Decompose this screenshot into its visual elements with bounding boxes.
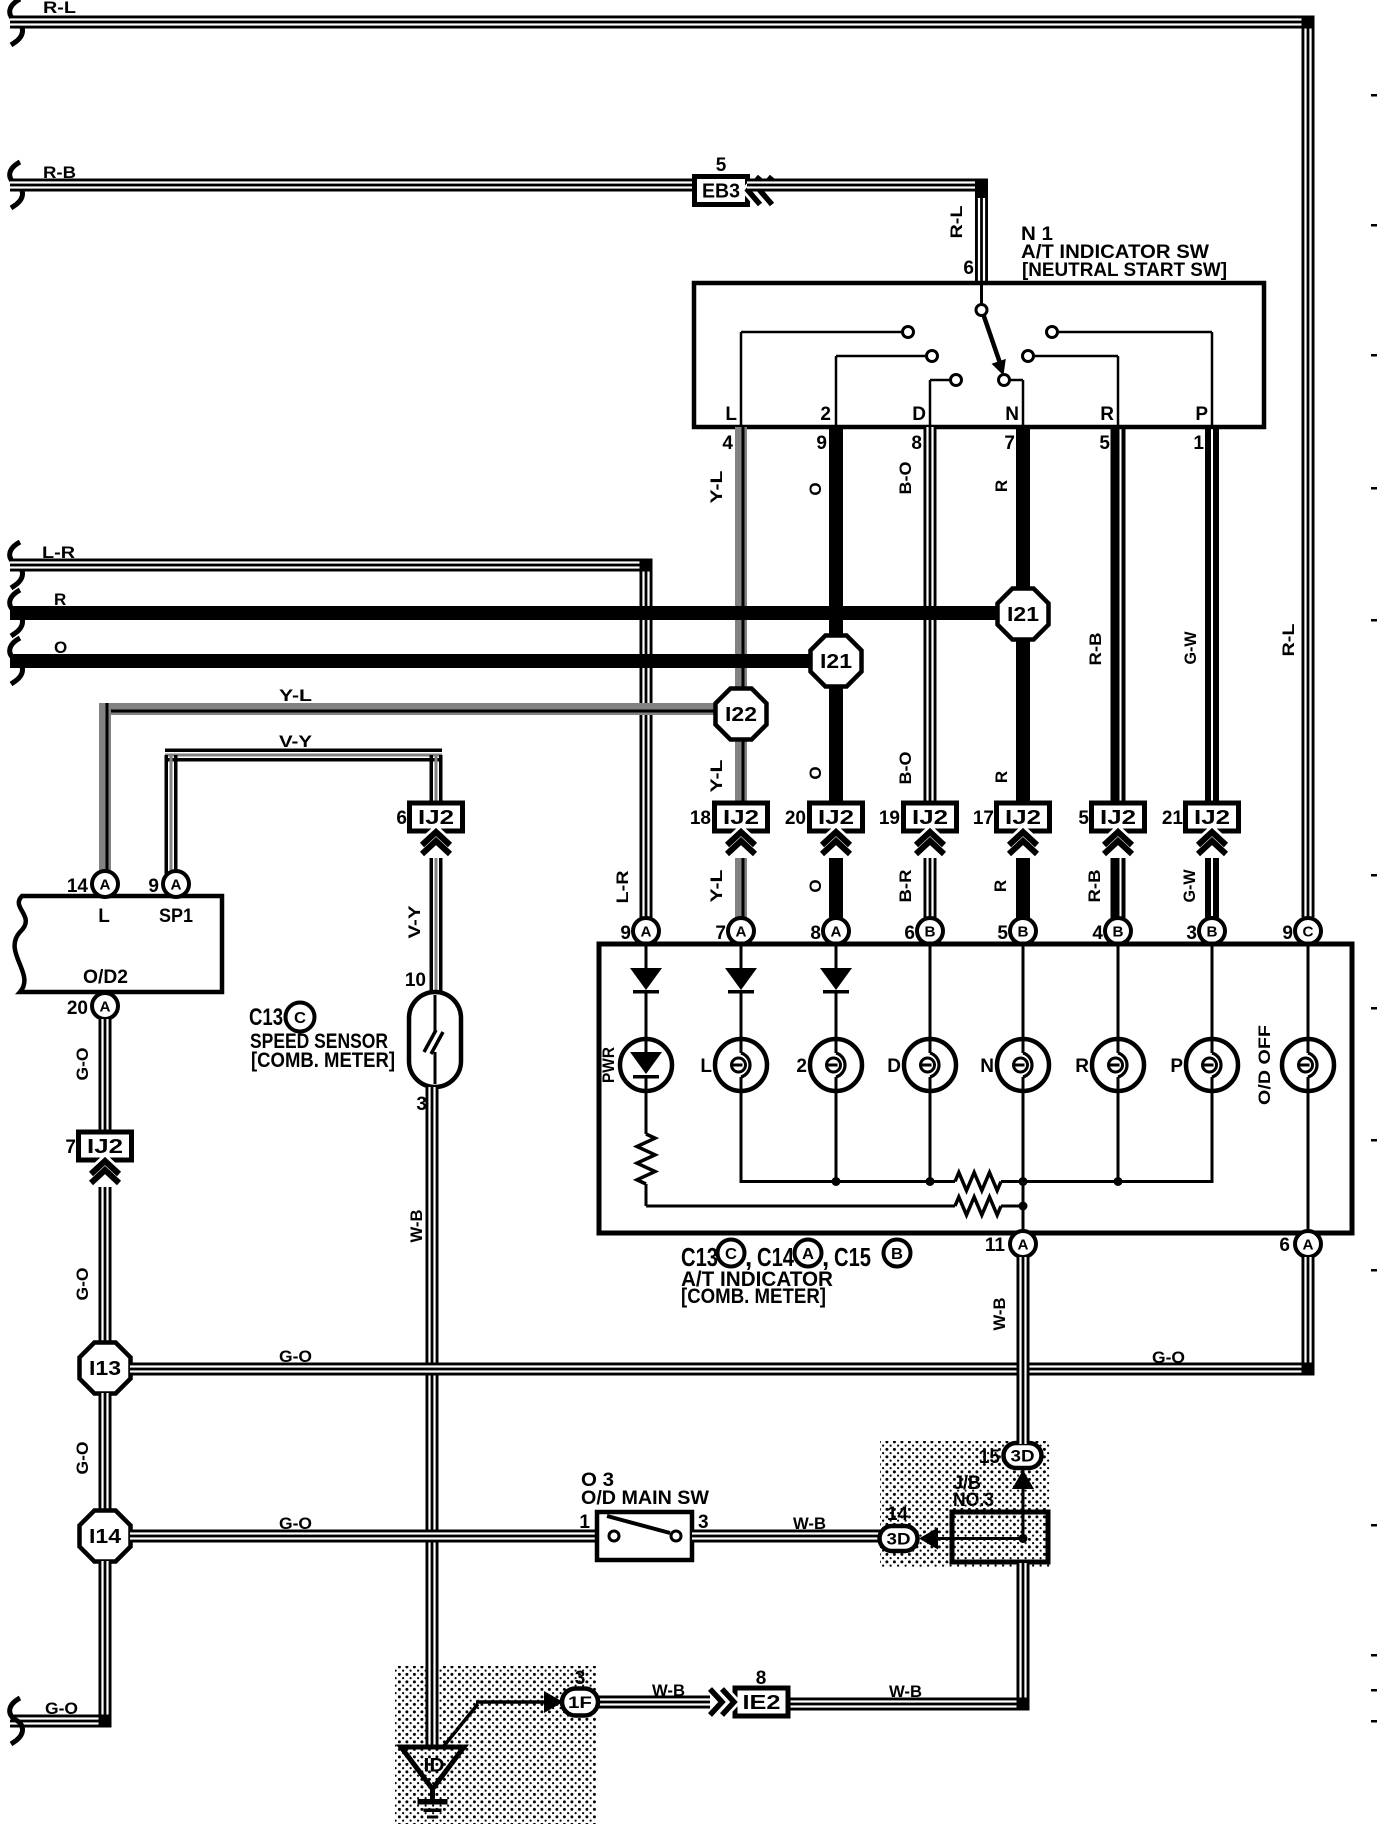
svg-text:IE2: IE2 <box>743 1692 781 1714</box>
connector 14 3D <box>880 1504 918 1551</box>
svg-text:C15: C15 <box>834 1242 871 1272</box>
col O/D OFF wire <box>1307 946 1310 1039</box>
svg-text:G-O: G-O <box>279 1514 312 1533</box>
connector 19 IJ2 <box>879 803 957 831</box>
svg-text:G-O: G-O <box>45 1699 78 1718</box>
svg-text:B: B <box>1207 924 1218 941</box>
splice I13 <box>80 1343 131 1394</box>
svg-text:1F: 1F <box>568 1693 592 1712</box>
switch position labels <box>725 404 1208 425</box>
svg-text:R: R <box>1100 404 1114 425</box>
svg-text:Y-L: Y-L <box>279 686 312 705</box>
wire G-W column P <box>1181 427 1219 803</box>
speed sensor capsule <box>409 992 461 1087</box>
connector 8 IE2 <box>735 1668 788 1716</box>
wire V-Y to speed sensor <box>405 858 443 992</box>
splice I21 on R wire <box>998 589 1049 640</box>
bulb O/D OFF <box>1255 1025 1334 1105</box>
switch blade <box>984 315 1006 376</box>
svg-text:A: A <box>831 924 842 941</box>
junction dot in J/B <box>1019 1534 1028 1543</box>
indicator connector pins 9A 7A 8A 6B 5B 4B 3B 9C <box>620 918 1321 944</box>
svg-text:SP1: SP1 <box>159 906 193 927</box>
svg-text:G-W: G-W <box>1181 631 1200 665</box>
svg-text:O: O <box>806 482 825 495</box>
bulb P <box>1170 1039 1238 1091</box>
svg-text:9: 9 <box>148 876 159 897</box>
wire R thick horizontal <box>10 590 1016 636</box>
wire R-L from EB3 to switch pin 6 <box>747 179 988 284</box>
svg-text:A: A <box>1018 1237 1029 1254</box>
bulb 2 <box>796 1039 862 1091</box>
svg-text:6: 6 <box>904 923 915 944</box>
svg-text:G-O: G-O <box>73 1268 92 1301</box>
wire G-W below IJ2 <box>1180 858 1219 918</box>
svg-text:B-O: B-O <box>896 462 915 495</box>
wire Y-L column L <box>707 427 747 918</box>
svg-text:A: A <box>641 924 652 941</box>
arrows into IE2 <box>710 1689 734 1715</box>
wire L-R horizontal <box>10 542 653 588</box>
svg-text:I21: I21 <box>820 651 852 673</box>
page edge tick marks <box>1371 94 1377 1723</box>
svg-text:B: B <box>925 924 936 941</box>
svg-text:C: C <box>294 1010 306 1027</box>
col D wire <box>929 946 932 1039</box>
svg-text:R: R <box>991 880 1010 892</box>
svg-text:W-B: W-B <box>407 1210 426 1243</box>
svg-text:6: 6 <box>963 258 974 279</box>
svg-text:C: C <box>1303 924 1314 941</box>
wire Y-L into O/D2 pin 14 <box>99 870 111 877</box>
svg-text:A: A <box>736 924 747 941</box>
svg-text:P: P <box>1195 404 1208 425</box>
LED PWR <box>599 1039 672 1091</box>
switch contact L <box>741 327 914 426</box>
svg-text:8: 8 <box>911 433 922 454</box>
switch contact R <box>1023 351 1119 426</box>
svg-text:G-O: G-O <box>1152 1348 1185 1367</box>
diode col L <box>725 946 757 1039</box>
arrow below 19 IJ2 <box>916 832 944 854</box>
svg-text:R-B: R-B <box>1086 633 1105 666</box>
svg-text:D: D <box>887 1056 901 1077</box>
svg-text:R-B: R-B <box>43 163 76 182</box>
splice I21 on O wire <box>811 636 862 687</box>
svg-text:I22: I22 <box>725 704 757 726</box>
connector 15 3D <box>979 1443 1042 1468</box>
svg-text:4: 4 <box>1092 923 1103 944</box>
connector 20 IJ2 <box>785 803 863 831</box>
O/D main switch name <box>581 1470 709 1509</box>
arrows into EB3 <box>748 177 772 205</box>
connector 3 1F <box>562 1668 598 1716</box>
switch pin numbers <box>722 433 1204 454</box>
svg-text:A: A <box>1303 1237 1314 1254</box>
connector 5 EB3 <box>695 155 748 205</box>
svg-text:O: O <box>54 638 67 657</box>
svg-text:N: N <box>1005 404 1019 425</box>
diode col 2 <box>820 946 852 1039</box>
wire W-B indicator to 15 3D <box>990 1257 1030 1444</box>
bus upper in indicator <box>741 1091 1212 1191</box>
svg-text:C13: C13 <box>249 1004 283 1031</box>
svg-text:1: 1 <box>1193 433 1204 454</box>
svg-text:R-L: R-L <box>947 206 966 239</box>
svg-text:L-R: L-R <box>42 543 75 562</box>
splice I22 on Y-L wire <box>716 689 767 740</box>
svg-text:G-W: G-W <box>1180 869 1199 903</box>
wire O thick horizontal <box>10 638 829 684</box>
svg-text:R: R <box>992 480 1011 492</box>
switch contact 2 <box>836 351 938 426</box>
wire R-B column R <box>1086 427 1126 803</box>
switch contact N <box>999 375 1024 426</box>
svg-text:18: 18 <box>690 808 711 829</box>
svg-text:3D: 3D <box>1011 1447 1035 1466</box>
svg-text:4: 4 <box>722 433 733 454</box>
arrow below 21 IJ2 <box>1198 832 1226 854</box>
splice I14 <box>80 1511 131 1562</box>
svg-text:W-B: W-B <box>990 1298 1009 1331</box>
wire G-O I14 to O/D main switch <box>130 1514 597 1543</box>
O/D2 box <box>15 896 222 992</box>
svg-text:O: O <box>806 766 825 779</box>
svg-text:Y-L: Y-L <box>707 471 726 504</box>
svg-text:B: B <box>1113 924 1124 941</box>
svg-text:15: 15 <box>979 1447 1001 1468</box>
svg-text:19: 19 <box>879 808 900 829</box>
wire R-L top horizontal <box>10 0 1315 45</box>
col R wire <box>1117 946 1120 1039</box>
svg-text:[COMB. METER]: [COMB. METER] <box>681 1285 826 1308</box>
svg-text:V-Y: V-Y <box>279 732 313 751</box>
svg-text:P: P <box>1170 1056 1183 1077</box>
svg-text:R: R <box>1075 1056 1089 1077</box>
wire G-O from O/D2 pin 20 <box>73 1019 112 1134</box>
svg-text:14: 14 <box>887 1504 909 1525</box>
svg-text:V-Y: V-Y <box>405 905 424 939</box>
O/D2 pin 14A <box>67 871 118 897</box>
wire W-B 1F to IE2 <box>597 1681 710 1709</box>
svg-text:20: 20 <box>67 998 88 1019</box>
connector 18 IJ2 <box>690 803 768 831</box>
svg-text:B: B <box>1018 924 1029 941</box>
ground shaded area <box>395 1666 597 1824</box>
wire up to 15 3D <box>1022 1467 1025 1538</box>
switch pivot <box>976 283 987 316</box>
diode col PWR <box>630 946 662 1039</box>
svg-text:PWR: PWR <box>599 1047 618 1083</box>
wire R column N <box>992 427 1030 803</box>
indicator bottom pin 11A <box>985 1231 1036 1257</box>
svg-text:R-B: R-B <box>1085 870 1104 903</box>
svg-text:EB3: EB3 <box>702 181 740 203</box>
O/D2 pin 20A <box>67 993 118 1019</box>
svg-text:20: 20 <box>785 808 806 829</box>
svg-text:C: C <box>725 1246 737 1263</box>
connector 21 IJ2 <box>1162 803 1239 831</box>
svg-text:Y-L: Y-L <box>707 870 726 903</box>
O/D main switch box <box>579 1512 708 1560</box>
svg-text:I14: I14 <box>89 1526 122 1548</box>
svg-text:D: D <box>912 404 926 425</box>
wire G-O below I14 <box>10 1561 112 1744</box>
svg-text:A: A <box>171 877 182 894</box>
svg-text:B-O: B-O <box>896 752 915 785</box>
svg-text:R: R <box>992 771 1011 783</box>
switch N1 box <box>694 283 1264 427</box>
svg-text:I13: I13 <box>89 1358 121 1380</box>
col O/D OFF lower wire <box>1307 1091 1310 1233</box>
A/T indicator caption <box>681 1240 911 1309</box>
col N wire <box>1022 946 1025 1039</box>
col P wire <box>1211 946 1214 1039</box>
arrow below 7 IJ2 <box>91 1161 119 1183</box>
svg-text:N: N <box>980 1056 994 1077</box>
connector 6 IJ2 <box>396 803 462 831</box>
svg-text:10: 10 <box>405 970 426 991</box>
svg-text:5: 5 <box>1078 808 1089 829</box>
svg-text:R-L: R-L <box>43 0 76 17</box>
svg-text:2: 2 <box>820 404 831 425</box>
svg-text:R: R <box>54 590 66 609</box>
svg-text:6: 6 <box>396 808 407 829</box>
svg-text:7: 7 <box>65 1137 76 1158</box>
wire R below IJ2 <box>991 858 1030 918</box>
A/T indicator box <box>599 944 1352 1233</box>
svg-text:L: L <box>700 1056 712 1077</box>
svg-text:W-B: W-B <box>652 1681 685 1700</box>
svg-text:3: 3 <box>575 1668 586 1689</box>
wire R-B left horizontal <box>10 162 696 208</box>
speed sensor caption <box>249 1003 395 1073</box>
arrow into 15 3D <box>1012 1470 1034 1489</box>
svg-text:L: L <box>725 404 737 425</box>
resistor below PWR <box>637 1091 655 1206</box>
svg-text:A: A <box>100 877 111 894</box>
svg-text:L: L <box>98 906 110 927</box>
wire R-B below IJ2 <box>1085 858 1126 918</box>
wire V-Y horizontal <box>165 732 443 877</box>
bulb R <box>1075 1039 1144 1091</box>
svg-text:7: 7 <box>715 923 726 944</box>
svg-text:NO.3: NO.3 <box>953 1490 994 1511</box>
svg-text:14: 14 <box>67 876 89 897</box>
svg-text:O/D2: O/D2 <box>83 967 128 988</box>
svg-text:G-O: G-O <box>73 1048 92 1081</box>
svg-text:W-B: W-B <box>793 1514 826 1533</box>
wire O column 2 <box>806 427 843 803</box>
wire O below IJ2 <box>806 858 843 918</box>
connector 17 IJ2 <box>973 803 1050 831</box>
svg-text:6: 6 <box>1279 1235 1290 1256</box>
wire G-O to I13 <box>73 1187 112 1343</box>
svg-text:G-O: G-O <box>73 1442 92 1475</box>
svg-text:A: A <box>802 1246 814 1263</box>
arrow into 14 3D <box>919 1528 938 1550</box>
svg-text:L-R: L-R <box>613 871 632 904</box>
wire G-O I13 to indicator 6A <box>130 1257 1315 1376</box>
svg-text:17: 17 <box>973 808 994 829</box>
wire W-B switch to 3D <box>692 1514 881 1543</box>
arrow below 18 IJ2 <box>727 832 755 854</box>
svg-text:W-B: W-B <box>889 1682 922 1701</box>
junction block J/B No.3 box <box>952 1473 1048 1562</box>
indicator bottom pin 6A <box>1279 1231 1321 1257</box>
svg-text:5: 5 <box>716 155 727 176</box>
bus lower in indicator <box>646 1183 1028 1233</box>
svg-text:3: 3 <box>1186 923 1197 944</box>
arrow below 6 IJ2 <box>422 832 450 854</box>
arrow below 5 IJ2 <box>1104 832 1132 854</box>
svg-text:1: 1 <box>579 1512 590 1533</box>
svg-text:3: 3 <box>416 1094 427 1115</box>
svg-text:G-O: G-O <box>279 1347 312 1366</box>
ground ID <box>401 1747 464 1819</box>
svg-text:B-R: B-R <box>896 870 915 903</box>
arrow below 20 IJ2 <box>822 832 850 854</box>
svg-text:[COMB. METER]: [COMB. METER] <box>251 1049 395 1072</box>
connector 5 IJ2 <box>1078 803 1144 831</box>
wire W-B below J/B <box>787 1563 1030 1711</box>
svg-text:3D: 3D <box>887 1530 911 1549</box>
svg-text:5: 5 <box>997 923 1008 944</box>
svg-text:7: 7 <box>1004 433 1015 454</box>
svg-text:11: 11 <box>985 1235 1006 1256</box>
O/D2 pin 9A <box>148 871 189 897</box>
svg-text:[NEUTRAL START SW]: [NEUTRAL START SW] <box>1022 260 1227 281</box>
wire B-O column D <box>896 427 937 803</box>
bulb N <box>980 1039 1049 1091</box>
svg-text:8: 8 <box>810 923 821 944</box>
svg-text:O: O <box>806 879 825 892</box>
wire W-B below speed sensor <box>407 1087 439 1748</box>
svg-text:Y-L: Y-L <box>707 760 726 793</box>
label Y-L below IJ2 <box>707 870 726 903</box>
svg-text:9: 9 <box>1282 923 1293 944</box>
svg-text:I21: I21 <box>1007 604 1039 626</box>
bulb D <box>887 1039 956 1091</box>
svg-text:B: B <box>891 1246 903 1263</box>
svg-text:5: 5 <box>1099 433 1110 454</box>
svg-text:ID: ID <box>424 1756 445 1777</box>
svg-text:O/D MAIN SW: O/D MAIN SW <box>581 1488 709 1509</box>
wire Y-L horizontal <box>99 686 716 877</box>
wire into J/B <box>938 1537 1023 1540</box>
wire B-R below IJ2 <box>896 858 937 918</box>
junction block J/B No.3 shaded area <box>880 1441 1050 1567</box>
svg-text:A: A <box>100 999 111 1016</box>
svg-text:O/D OFF: O/D OFF <box>1255 1025 1274 1105</box>
wire to ground branch <box>443 1691 563 1747</box>
arrow below 17 IJ2 <box>1009 832 1037 854</box>
switch contact D <box>930 375 962 426</box>
svg-text:9: 9 <box>816 433 827 454</box>
wire L-R vertical to pin 9A <box>613 559 653 919</box>
wire R-L right vertical <box>1279 16 1315 918</box>
svg-text:8: 8 <box>756 1668 767 1689</box>
bulb L <box>700 1039 767 1091</box>
svg-text:9: 9 <box>620 923 631 944</box>
wire G-O I13 to I14 <box>73 1393 112 1511</box>
svg-text:21: 21 <box>1162 808 1184 829</box>
A/T indicator switch name <box>1021 224 1227 281</box>
switch contact P <box>1047 327 1213 426</box>
connector 7 IJ2 <box>65 1132 131 1160</box>
svg-text:2: 2 <box>796 1056 807 1077</box>
svg-text:R-L: R-L <box>1279 624 1298 657</box>
